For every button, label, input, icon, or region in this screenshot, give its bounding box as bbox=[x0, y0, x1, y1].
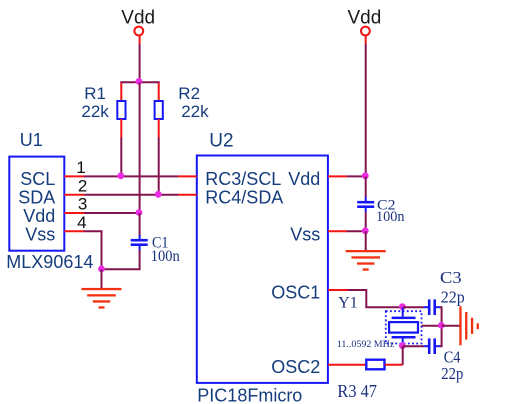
resistor R3 bbox=[337, 360, 402, 402]
wire Vdd right vertical bbox=[365, 44, 367, 176]
power symbol Vdd left bbox=[121, 7, 155, 44]
node junction Vdd/C2 bbox=[362, 172, 369, 179]
wire Vdd left vertical bbox=[139, 44, 141, 82]
svg-text:Vdd: Vdd bbox=[347, 7, 381, 28]
U2 pin Vss stub bbox=[328, 230, 347, 232]
wire rail to C2 bbox=[365, 176, 367, 197]
svg-text:Y1: Y1 bbox=[338, 294, 358, 311]
wire SDA net U1 to U2 bbox=[84, 194, 178, 196]
node junction Vdd/pin3 bbox=[136, 209, 143, 216]
wire node B to C4 bbox=[403, 345, 424, 347]
wire Vdd rail down to pin3 bbox=[139, 82, 141, 213]
wire C2 to Vss junction bbox=[365, 212, 367, 231]
capacitor C4 bbox=[424, 338, 464, 383]
wire Vdd rail to C1 bbox=[139, 213, 141, 236]
IC U2 PIC18Fmicro bbox=[197, 130, 328, 404]
wire C4 to node C bbox=[440, 326, 442, 346]
capacitor C2 bbox=[357, 197, 405, 225]
wire crystal case to node C bbox=[422, 325, 442, 327]
svg-text:R1: R1 bbox=[84, 84, 106, 103]
resistor R1 bbox=[81, 83, 125, 138]
wire OSC1 to crystal node A bbox=[348, 290, 403, 307]
node junction R2/SDA bbox=[155, 191, 162, 198]
svg-text:1: 1 bbox=[76, 158, 85, 177]
ground GND1 under U1 bbox=[82, 288, 122, 309]
svg-text:R3 47: R3 47 bbox=[337, 381, 377, 401]
U2 pin OSC2 stub bbox=[328, 364, 347, 366]
U2 pin OSC1 stub bbox=[328, 289, 348, 291]
wire R3 to node B bbox=[402, 346, 404, 365]
svg-text:Vdd: Vdd bbox=[288, 169, 320, 189]
svg-text:22p: 22p bbox=[441, 364, 463, 383]
wire SCL net U1 to U2 bbox=[84, 175, 178, 177]
IC U1 MLX90614 bbox=[6, 130, 93, 272]
wire junction to ground bbox=[365, 231, 367, 251]
svg-text:RC3/SCL: RC3/SCL bbox=[205, 169, 281, 189]
U1 pin 1 stub bbox=[64, 175, 84, 177]
svg-text:SCL: SCL bbox=[20, 169, 55, 189]
U2 pin Vdd stub bbox=[328, 175, 347, 177]
node junction B crystal bottom bbox=[399, 342, 406, 349]
svg-text:11..0592 MHz: 11..0592 MHz bbox=[337, 339, 395, 350]
svg-text:MLX90614: MLX90614 bbox=[6, 252, 93, 272]
svg-text:Vdd: Vdd bbox=[23, 206, 55, 226]
wire node A to C3 bbox=[403, 306, 424, 308]
ground GND3 rotated bbox=[459, 306, 479, 345]
wire R1 to SCL line bbox=[120, 138, 122, 177]
svg-text:4: 4 bbox=[77, 213, 86, 232]
svg-text:Vdd: Vdd bbox=[121, 7, 155, 28]
capacitor C1 bbox=[131, 235, 180, 265]
wire R1-R2 top horizontal bbox=[120, 81, 159, 83]
svg-text:U1: U1 bbox=[20, 130, 43, 150]
crystal Y1 bbox=[386, 307, 422, 346]
ground GND2 under C2 bbox=[346, 250, 386, 271]
svg-text:R2: R2 bbox=[178, 84, 200, 103]
wire C3 to node C bbox=[440, 307, 442, 326]
svg-text:22k: 22k bbox=[81, 102, 109, 121]
power symbol Vdd right bbox=[347, 7, 381, 44]
wire pin4 Vss down bbox=[84, 231, 102, 269]
svg-text:22k: 22k bbox=[181, 102, 209, 121]
capacitor C3 bbox=[424, 268, 465, 315]
resistor R2 bbox=[155, 83, 210, 138]
node junction C (C3/C4/GND) bbox=[438, 322, 445, 329]
wire Vss to ground bbox=[101, 269, 103, 288]
svg-text:100n: 100n bbox=[151, 248, 180, 265]
svg-text:RC4/SDA: RC4/SDA bbox=[205, 187, 283, 207]
node junction Vss/C1 bbox=[98, 266, 105, 273]
svg-text:OSC1: OSC1 bbox=[271, 282, 320, 302]
svg-text:3: 3 bbox=[78, 194, 87, 213]
node junction Vdd/R1/R2 bbox=[136, 78, 143, 85]
U2 pin RC3/SCL stub bbox=[178, 175, 197, 177]
U1 pin 3 stub bbox=[64, 212, 84, 214]
node junction A crystal top bbox=[399, 303, 406, 310]
U1 pin 2 stub bbox=[64, 194, 84, 196]
node junction Vss/C2/GND bbox=[362, 227, 369, 234]
wire U2 Vdd pin to rail bbox=[347, 175, 366, 177]
svg-text:22p: 22p bbox=[441, 288, 465, 307]
wire Vss pin to junction bbox=[347, 230, 366, 232]
svg-text:C3: C3 bbox=[440, 268, 462, 287]
svg-text:100n: 100n bbox=[376, 209, 405, 225]
svg-text:SDA: SDA bbox=[18, 187, 55, 207]
svg-text:2: 2 bbox=[78, 176, 87, 195]
node junction R1/SCL bbox=[117, 172, 124, 179]
svg-text:U2: U2 bbox=[209, 130, 233, 151]
svg-text:Vss: Vss bbox=[25, 225, 55, 245]
wire node C to ground bbox=[442, 325, 460, 327]
wire R2 to SDA line bbox=[158, 138, 160, 195]
U2 pin RC4/SDA stub bbox=[178, 194, 197, 196]
wire C1 bottom to Vss net bbox=[102, 250, 140, 269]
U1 pin 4 stub bbox=[64, 230, 84, 232]
svg-text:Vss: Vss bbox=[290, 225, 320, 245]
wire Vdd pin3 net bbox=[84, 212, 140, 214]
svg-text:OSC2: OSC2 bbox=[271, 357, 320, 377]
svg-text:PIC18Fmicro: PIC18Fmicro bbox=[197, 386, 302, 404]
